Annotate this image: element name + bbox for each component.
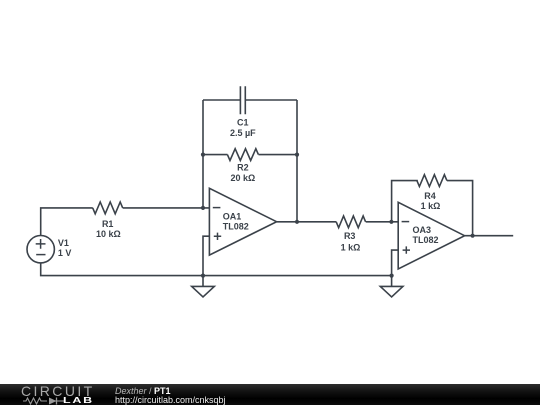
OA3 minus symbol — [402, 221, 410, 223]
svg-text:OA3: OA3 — [413, 225, 432, 235]
V1 minus sign — [36, 254, 45, 256]
wire C1 to right vertical — [246, 99, 298, 101]
svg-text:R1: R1 — [102, 219, 114, 229]
resistor R1 — [93, 202, 123, 214]
svg-text:TL082: TL082 — [413, 235, 439, 245]
svg-text:10 kΩ: 10 kΩ — [96, 229, 121, 239]
resistor R2 — [227, 149, 258, 161]
ground stem OA1 — [202, 276, 204, 287]
CircuitLab logo resistor-diode glyph — [23, 397, 67, 405]
wire R4 feedback left vertical — [392, 181, 418, 222]
wire OA1 plus input to ground rail — [203, 236, 209, 275]
wire top to C1 — [203, 99, 240, 101]
node OA1 ground junction — [201, 274, 205, 278]
wire V1 bottom rail — [41, 263, 392, 276]
url — [115, 396, 226, 405]
node OA3 minus junction — [389, 220, 393, 224]
svg-text:C1: C1 — [237, 117, 249, 127]
footer bar — [0, 384, 540, 405]
wire feedback right vertical — [296, 100, 298, 222]
op-amp OA1 — [209, 188, 276, 255]
wire R4 to output vertical — [447, 181, 473, 236]
OA1 plus symbol — [214, 233, 221, 240]
resistor R3 — [336, 216, 365, 228]
svg-text:1 V: 1 V — [58, 248, 72, 258]
svg-text:OA1: OA1 — [223, 211, 242, 221]
OA1 minus symbol — [213, 207, 221, 209]
node OA1 minus junction — [201, 206, 205, 210]
ground stem OA3 — [391, 276, 393, 287]
svg-text:R4: R4 — [424, 191, 436, 201]
capacitor C1 — [240, 86, 245, 114]
node OA1 output junction — [295, 220, 299, 224]
node R2-C1 left junction — [201, 153, 205, 157]
svg-text:1 kΩ: 1 kΩ — [341, 243, 361, 253]
resistor R4 — [417, 175, 447, 187]
wire feedback left vertical — [202, 100, 204, 208]
svg-text:R2: R2 — [237, 163, 249, 173]
ground symbol OA3 — [380, 286, 403, 297]
wire OA3 output — [465, 235, 514, 237]
wire OA3 plus input to ground — [392, 250, 399, 276]
node OA3 ground junction — [390, 274, 394, 278]
ground symbol OA1 — [192, 286, 215, 297]
svg-text:V1: V1 — [58, 238, 69, 248]
op-amp OA3 — [398, 202, 464, 269]
wire left vertical to R2 — [203, 154, 228, 156]
svg-text:TL082: TL082 — [223, 221, 249, 231]
V1 plus sign — [36, 239, 46, 249]
wire V1 top to R1 — [41, 208, 93, 236]
author / title — [115, 387, 171, 396]
svg-text:R3: R3 — [344, 231, 356, 241]
svg-text:2.5 µF: 2.5 µF — [230, 128, 256, 138]
wire OA1 output to R3 — [277, 221, 337, 223]
node R2-C1 right junction — [295, 153, 299, 157]
wire R3 to OA3 minus input — [366, 221, 399, 223]
svg-text:20 kΩ: 20 kΩ — [231, 173, 256, 183]
OA3 plus symbol — [403, 246, 410, 253]
node OA3 output junction — [471, 234, 475, 238]
CircuitLab logo word CIRCUIT — [21, 386, 95, 397]
wire R1 to OA1 minus input — [123, 207, 210, 209]
svg-text:1 kΩ: 1 kΩ — [421, 201, 441, 211]
voltage source V1 — [27, 236, 54, 263]
CircuitLab logo word LAB — [63, 395, 94, 405]
wire R2 to right vertical — [259, 154, 298, 156]
